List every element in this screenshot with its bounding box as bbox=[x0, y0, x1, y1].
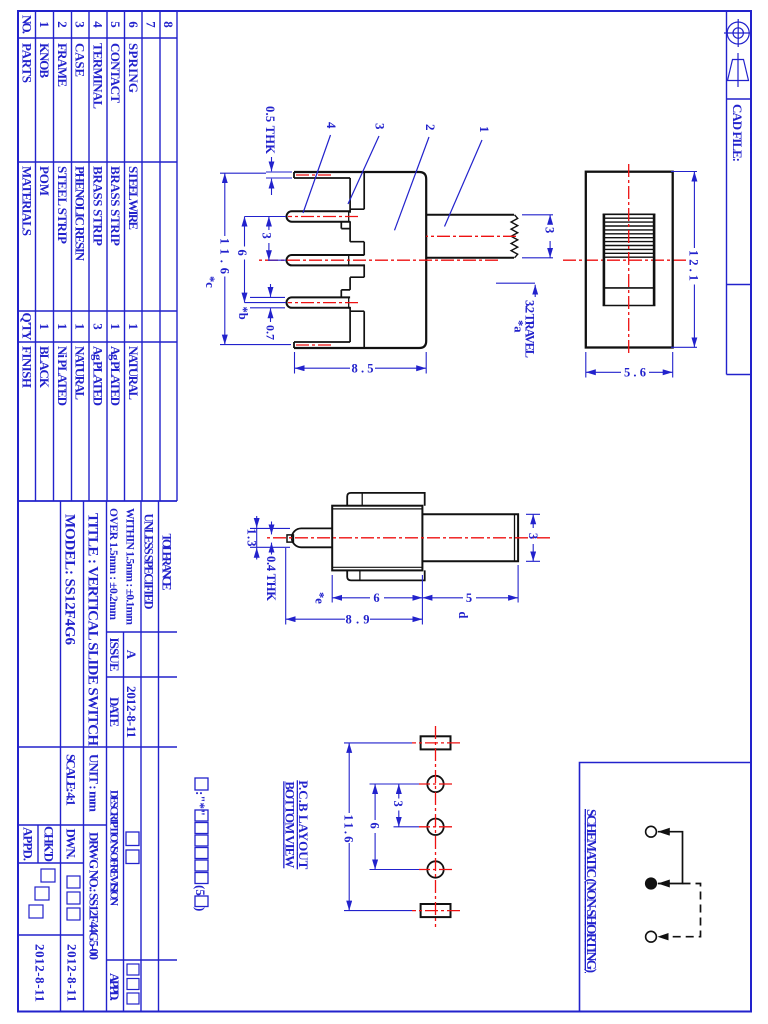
svg-text:KNOB: KNOB bbox=[37, 43, 52, 78]
svg-text:0.5 THK: 0.5 THK bbox=[263, 106, 277, 154]
svg-text:MODEL: SS12F4G6: MODEL: SS12F4G6 bbox=[62, 514, 78, 646]
pcb layout: hole 1 bbox=[427, 776, 443, 792]
svg-text::"*": :"*" bbox=[193, 791, 208, 816]
body face line crossing pins bbox=[348, 211, 350, 309]
svg-text:1.3: 1.3 bbox=[245, 529, 259, 547]
side view: shaft end cap bbox=[514, 514, 516, 561]
svg-text:3: 3 bbox=[73, 21, 88, 28]
schematic terminal 2 (common, filled) bbox=[645, 878, 656, 889]
svg-text:6: 6 bbox=[368, 823, 382, 829]
svg-text:6: 6 bbox=[373, 591, 379, 605]
svg-text:*b: *b bbox=[236, 307, 250, 320]
svg-text:A: A bbox=[124, 650, 139, 660]
dim 0.4 THK bbox=[271, 522, 273, 535]
svg-text:SCHEMATIC (NON-SHORTING): SCHEMATIC (NON-SHORTING) bbox=[584, 809, 599, 973]
svg-text:*c: *c bbox=[203, 276, 217, 288]
svg-text:0.4 THK: 0.4 THK bbox=[264, 556, 278, 601]
side view: terminal end tab bbox=[287, 535, 293, 542]
svg-text:11.6: 11.6 bbox=[342, 815, 356, 843]
svg-text:7: 7 bbox=[144, 21, 159, 28]
svg-text:DESCRIPTIONS OF REVISION: DESCRIPTIONS OF REVISION bbox=[108, 790, 120, 907]
svg-text:BLACK: BLACK bbox=[37, 346, 52, 389]
svg-text:ISSUE: ISSUE bbox=[107, 638, 122, 672]
svg-text:CAD FILE:: CAD FILE: bbox=[730, 104, 745, 162]
svg-text:NO.: NO. bbox=[20, 15, 35, 34]
revision table texts bbox=[107, 638, 139, 1005]
svg-text:3: 3 bbox=[391, 801, 405, 807]
svg-text:CASE: CASE bbox=[73, 43, 88, 77]
frame leg left (part 2 frame) bbox=[294, 172, 350, 178]
svg-text:MATERIALS: MATERIALS bbox=[20, 166, 35, 236]
svg-text:Ni PLATED: Ni PLATED bbox=[55, 346, 70, 406]
svg-text:CHK'D: CHK'D bbox=[42, 826, 57, 862]
svg-text:OVER 1.5mm : ±0.2mm: OVER 1.5mm : ±0.2mm bbox=[107, 508, 119, 620]
wire solid bracket 1-2 bbox=[658, 832, 683, 884]
pcb dim 3 bbox=[394, 826, 420, 828]
svg-text:STEEL WIRE: STEEL WIRE bbox=[126, 166, 141, 230]
side view: case body bbox=[332, 506, 422, 571]
svg-text:DWN.: DWN. bbox=[64, 829, 79, 860]
svg-text:(5: (5 bbox=[193, 885, 208, 896]
dim 1.3 bbox=[250, 528, 290, 547]
svg-text:DATE: DATE bbox=[107, 697, 122, 727]
svg-text:APPD.: APPD. bbox=[107, 973, 122, 1001]
svg-text:STEEL STRIP: STEEL STRIP bbox=[55, 166, 70, 244]
svg-text:DRWG NO.: SS12F44G5-00: DRWG NO.: SS12F44G5-00 bbox=[87, 832, 102, 960]
dim 5 shaft bbox=[517, 565, 519, 603]
top view: frame outline bbox=[586, 172, 673, 348]
pcb dim 11.6 bbox=[344, 743, 412, 911]
pcb dim 6 bbox=[370, 784, 420, 870]
svg-text:4: 4 bbox=[324, 122, 339, 129]
svg-text:8: 8 bbox=[161, 21, 176, 28]
terminal pin 2 (front) bbox=[287, 211, 351, 221]
svg-text:TOLERANCE: TOLERANCE bbox=[160, 534, 174, 591]
svg-text:PARTS: PARTS bbox=[20, 43, 35, 83]
dim 6 between pins bbox=[244, 217, 246, 247]
side view: frame flange right bbox=[347, 570, 425, 580]
frame leg right bbox=[294, 342, 350, 348]
top view: knob slot bbox=[604, 214, 654, 305]
dim 3 knob width bbox=[522, 215, 553, 258]
svg-text:P.C.B LAYOUT: P.C.B LAYOUT bbox=[296, 780, 311, 869]
pcb red centerlines bbox=[435, 726, 437, 927]
svg-text:3: 3 bbox=[373, 123, 388, 130]
svg-text:Ag PLATED: Ag PLATED bbox=[91, 346, 106, 406]
svg-text:WITHIN 1.5mm : ±0.1mm: WITHIN 1.5mm : ±0.1mm bbox=[124, 508, 136, 625]
svg-text:8.9: 8.9 bbox=[346, 613, 370, 627]
svg-text:CONTACT: CONTACT bbox=[108, 43, 123, 103]
projection symbol cone bbox=[728, 53, 749, 87]
side view: knob shaft bbox=[422, 514, 518, 561]
svg-text:2: 2 bbox=[55, 21, 70, 28]
svg-text:1: 1 bbox=[108, 323, 123, 330]
top view: knob ribs bbox=[605, 218, 654, 257]
dim 6 body bbox=[332, 575, 422, 625]
side view: inner frame lines bbox=[332, 509, 422, 567]
projection symbol circle bbox=[724, 19, 752, 47]
red centerline knob axis bbox=[426, 235, 516, 237]
svg-text:BRASS STRIP: BRASS STRIP bbox=[108, 166, 123, 246]
svg-text:3: 3 bbox=[260, 233, 274, 239]
top view red horizontal centerline bbox=[628, 164, 630, 356]
red centerline top view axis bbox=[562, 259, 686, 261]
dim 5.6 bbox=[586, 352, 673, 378]
svg-text:2012-8-11: 2012-8-11 bbox=[33, 944, 48, 1002]
side view: terminal pin bbox=[292, 528, 332, 547]
dim 0.7 pin width bbox=[250, 297, 285, 307]
pcb layout: hole 2 bbox=[427, 819, 443, 835]
tolerance block bbox=[107, 508, 174, 625]
red centerline main axis bbox=[256, 259, 498, 261]
parts list header row bbox=[20, 15, 35, 388]
svg-text:1: 1 bbox=[477, 126, 492, 133]
side view: flange seam lines bbox=[360, 493, 362, 581]
terminal pin 4 (front) bbox=[287, 297, 351, 307]
svg-text:2012-8-11: 2012-8-11 bbox=[124, 686, 139, 738]
svg-text:): ) bbox=[193, 907, 208, 911]
red centerline leg right bbox=[296, 344, 331, 346]
knob shaft (part 1) with break zigzag bbox=[426, 215, 514, 258]
svg-text:1: 1 bbox=[37, 323, 52, 330]
svg-text:3: 3 bbox=[543, 227, 557, 233]
svg-text:5.6: 5.6 bbox=[624, 366, 646, 380]
top-left header strip bbox=[727, 11, 752, 375]
svg-text:5: 5 bbox=[108, 21, 123, 28]
front view: switch body outline bbox=[294, 172, 426, 348]
svg-text:5: 5 bbox=[466, 591, 472, 605]
dim 3.2 travel bbox=[496, 282, 535, 284]
schematic terminal 1 bbox=[646, 826, 657, 837]
svg-text:d: d bbox=[456, 612, 470, 619]
side view: frame flange left bbox=[347, 493, 425, 506]
dim 11.6 *c bbox=[220, 173, 291, 344]
body bottom profile with slots and steps bbox=[341, 172, 364, 348]
dim 8.5 height bbox=[295, 352, 427, 374]
svg-text:Ag PLATED: Ag PLATED bbox=[108, 346, 123, 406]
schematic box bbox=[580, 763, 752, 1012]
svg-text:1: 1 bbox=[37, 21, 52, 28]
dim 8.9 bbox=[285, 548, 287, 625]
svg-text:BRASS STRIP: BRASS STRIP bbox=[91, 166, 106, 246]
svg-text:UNIT : mm: UNIT : mm bbox=[87, 754, 102, 812]
svg-text:1: 1 bbox=[126, 323, 141, 330]
svg-text:11.6: 11.6 bbox=[218, 238, 232, 274]
side view red centerline bbox=[265, 537, 550, 539]
svg-text:APPD.: APPD. bbox=[21, 827, 36, 861]
svg-text:3: 3 bbox=[91, 323, 106, 330]
unit / scale / drwg bbox=[21, 754, 102, 1002]
svg-text:FINISH: FINISH bbox=[20, 346, 35, 388]
svg-text:2: 2 bbox=[423, 124, 438, 131]
svg-text:1: 1 bbox=[55, 323, 70, 330]
schematic terminal 3 bbox=[646, 931, 657, 942]
svg-text:TITLE : VERTICAL SLIDE SWITCH: TITLE : VERTICAL SLIDE SWITCH bbox=[85, 513, 101, 746]
svg-text:*a: *a bbox=[512, 320, 526, 333]
svg-text:3: 3 bbox=[526, 533, 540, 539]
red centerline pin4 bbox=[288, 302, 358, 304]
top view: knob edge line bbox=[604, 287, 654, 289]
knob break line bbox=[511, 215, 518, 258]
parts rows 1-8 bbox=[37, 21, 176, 406]
terminal pin 3 (front, center) bbox=[287, 255, 365, 265]
red centerline pin2 bbox=[288, 216, 358, 218]
dim 3 shaft bbox=[526, 514, 540, 561]
svg-text:POM: POM bbox=[37, 166, 52, 196]
note: key dimension remark bbox=[195, 778, 208, 907]
pcb layout: slot pad right bbox=[421, 904, 451, 917]
svg-text:TERMINAL: TERMINAL bbox=[91, 43, 106, 109]
svg-text:*e: *e bbox=[313, 592, 327, 604]
parts list table grid bbox=[18, 11, 177, 501]
title block grid bbox=[18, 501, 177, 1012]
dim 3 between pins bbox=[245, 217, 287, 303]
red centerline leg left bbox=[296, 174, 331, 176]
svg-text:6: 6 bbox=[235, 250, 249, 256]
svg-text:NATURAL: NATURAL bbox=[126, 346, 141, 400]
svg-text:NATURAL: NATURAL bbox=[73, 346, 88, 400]
dashed arrowhead at terminal 3 bbox=[658, 933, 669, 940]
svg-text:2012-8-11: 2012-8-11 bbox=[65, 944, 80, 1002]
svg-text:4: 4 bbox=[91, 21, 106, 28]
wire dashed bracket 2-3 bbox=[669, 884, 701, 937]
svg-text:0.7: 0.7 bbox=[264, 325, 278, 340]
svg-text:BOTTOM VIEW: BOTTOM VIEW bbox=[283, 781, 298, 868]
svg-text:Q'TY: Q'TY bbox=[20, 313, 35, 342]
svg-text:12.1: 12.1 bbox=[687, 250, 701, 281]
svg-text:PHENOLIC RESIN: PHENOLIC RESIN bbox=[73, 166, 88, 262]
pcb layout: slot pad left bbox=[421, 736, 451, 749]
dim 12.1 bbox=[671, 172, 697, 348]
svg-text:FRAME: FRAME bbox=[55, 43, 70, 87]
pcb layout: hole 3 bbox=[427, 861, 443, 877]
svg-text:SPRING: SPRING bbox=[126, 43, 141, 93]
svg-text:8.5: 8.5 bbox=[352, 362, 374, 376]
svg-text:6: 6 bbox=[126, 21, 141, 28]
svg-text:SCALE: 4:1: SCALE: 4:1 bbox=[64, 754, 79, 806]
svg-text:1: 1 bbox=[73, 323, 88, 330]
svg-text:UNLESS SPECIFIED: UNLESS SPECIFIED bbox=[142, 514, 156, 610]
